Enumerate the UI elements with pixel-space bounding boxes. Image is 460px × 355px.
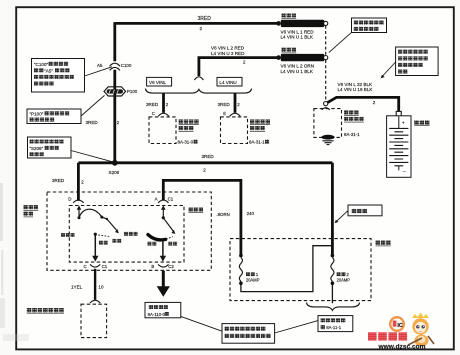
svg-text:L4 VIN U 3 RED: L4 VIN U 3 RED bbox=[211, 51, 245, 56]
cooling fan relay 1 (8A-31-0) bbox=[149, 117, 199, 145]
wire 1YEL circuit 10 to dimmer switch bbox=[71, 269, 104, 300]
svg-text:“S206”: “S206” bbox=[30, 146, 44, 151]
fuse box name label bbox=[376, 241, 391, 246]
svg-text:8A-11-1: 8A-11-1 bbox=[326, 325, 342, 330]
wire 3RED branch 2 to cooling fan relay bbox=[218, 93, 241, 116]
svg-text:−: − bbox=[403, 169, 406, 175]
splice hook under feed 2 bbox=[194, 77, 203, 80]
svg-text:3RED: 3RED bbox=[52, 178, 65, 183]
svg-text:E: E bbox=[223, 111, 226, 116]
svg-text:10: 10 bbox=[98, 284, 104, 289]
battery positive terminal bbox=[396, 111, 401, 116]
battery bbox=[387, 116, 430, 178]
pointer exterior lights box to note bbox=[181, 316, 222, 331]
brace under fuse box bbox=[307, 303, 360, 311]
watermark: red brand blocks bbox=[368, 332, 407, 340]
pointer C100 note to symbol bbox=[85, 67, 113, 76]
fuse box dashed outline bbox=[230, 239, 371, 301]
label box L4 VINU bbox=[217, 77, 242, 86]
pointer note to fuse detail box bbox=[275, 321, 318, 333]
connector at dimmer switch bbox=[90, 300, 100, 303]
svg-text:C: C bbox=[152, 111, 155, 116]
park/off switch wiper right (to connector A) bbox=[161, 205, 175, 234]
note box: page reference explanation bbox=[222, 324, 275, 344]
bold travel arc right switch bbox=[148, 235, 173, 262]
connector at cooling fan relay 2 bbox=[230, 113, 241, 116]
pointer bolt note to terminal bbox=[329, 32, 352, 52]
splice S206 bbox=[109, 160, 120, 175]
starter solenoid (8A-31-1) bbox=[314, 109, 364, 138]
right switch position labels bbox=[124, 232, 177, 246]
svg-text:P100: P100 bbox=[127, 89, 138, 94]
svg-text:L4 VIN U 1 BLK: L4 VIN U 1 BLK bbox=[281, 69, 314, 74]
wire V6 VIN L 2 RED / L4 VIN U 3 RED feed to fusible link 2 bbox=[199, 46, 279, 76]
grommet P100 bbox=[104, 87, 138, 96]
svg-text:V6 VIN L 2 RED: V6 VIN L 2 RED bbox=[211, 46, 245, 51]
arrow to exterior lights page bbox=[157, 271, 170, 297]
svg-text:20AMP: 20AMP bbox=[246, 278, 260, 283]
pointer arrow engine note to wire label bbox=[381, 62, 396, 78]
svg-text:3RED: 3RED bbox=[146, 102, 159, 107]
svg-text:www.dzsc.com: www.dzsc.com bbox=[378, 343, 426, 350]
starter solenoid connector bbox=[322, 108, 330, 110]
connector D at light switch bbox=[68, 196, 83, 202]
watermark: orange ring logo bbox=[390, 317, 404, 331]
svg-text:A5: A5 bbox=[97, 63, 103, 68]
svg-text:1YEL: 1YEL bbox=[71, 284, 83, 289]
svg-text:V6 VINL: V6 VINL bbox=[149, 80, 167, 85]
svg-text:3RED: 3RED bbox=[86, 120, 99, 125]
cooling fan relay 2 (8A-31-1) bbox=[221, 117, 271, 145]
brace splitting feed to two cooling fan branches bbox=[146, 89, 252, 94]
svg-text:3RED: 3RED bbox=[202, 154, 215, 159]
connector B C2 bottom right bbox=[151, 264, 174, 269]
svg-text:C1: C1 bbox=[168, 196, 174, 201]
svg-text:3RED: 3RED bbox=[198, 16, 212, 22]
pointer constant power to wire bbox=[335, 211, 348, 224]
wire label V6 VIN L 32 BLK bbox=[338, 82, 374, 92]
headlamp dimmer switch dashed box bbox=[81, 304, 107, 337]
label box V6 VINL bbox=[147, 77, 172, 86]
svg-text:A: A bbox=[155, 196, 158, 201]
note box: different wires for engine types bbox=[396, 47, 439, 76]
pointer P100 note to symbol bbox=[81, 95, 105, 116]
svg-text:L4 VIN U 19 BLK: L4 VIN U 19 BLK bbox=[338, 87, 374, 92]
node: power distribution reference label bbox=[24, 205, 39, 217]
fuse 1 20AMP bbox=[239, 246, 332, 292]
svg-text:.8ORN: .8ORN bbox=[216, 212, 229, 217]
svg-text:2: 2 bbox=[373, 100, 376, 105]
svg-text:3RED: 3RED bbox=[218, 102, 231, 107]
ground at starter bbox=[322, 141, 333, 145]
note box: fusible links attached to same bolt bbox=[352, 18, 387, 33]
svg-text:2: 2 bbox=[200, 26, 203, 31]
svg-text:C100: C100 bbox=[121, 63, 132, 68]
svg-text:“A5”: “A5” bbox=[44, 68, 53, 73]
svg-text:B: B bbox=[151, 264, 154, 269]
dashed line: fusible links on same bolt bbox=[325, 26, 327, 101]
note box: see exterior lights 8A-110-0 bbox=[145, 302, 181, 317]
fusible link 1 (V6 VIN L 1 RED / L4 VIN U 1 BLK) bbox=[276, 13, 328, 39]
svg-text:240: 240 bbox=[247, 211, 255, 216]
wire 3RED branch 1 to cooling fan relay bbox=[146, 93, 169, 116]
svg-text:L4 VINU: L4 VINU bbox=[219, 80, 236, 85]
wire: feed down to fuse box (constant power) bbox=[331, 163, 334, 256]
svg-text:IC: IC bbox=[397, 323, 403, 329]
svg-text:+: + bbox=[402, 121, 405, 127]
wire 3RED drop to light switch D bbox=[52, 163, 84, 201]
svg-text:S206: S206 bbox=[109, 170, 120, 175]
light switch inner dashed box bbox=[69, 206, 184, 263]
light switch outer dashed box bbox=[47, 192, 211, 270]
note box: S206 splice code explanation bbox=[28, 137, 72, 158]
svg-text:V6 VIN L 32 BLK: V6 VIN L 32 BLK bbox=[338, 82, 373, 87]
svg-text:“P100”: “P100” bbox=[30, 111, 44, 116]
connector at cooling fan relay 1 bbox=[158, 113, 169, 116]
left switch position labels bbox=[61, 233, 121, 244]
connector C100 pin A5 bbox=[97, 63, 132, 70]
pointer S206 note to splice bbox=[71, 151, 113, 162]
headlamp switch wiper left (to connector D) bbox=[77, 205, 119, 233]
headlamp dimmer switch name bbox=[27, 308, 64, 314]
fusible link 2 (V6 VIN L 2 ORN / L4 VIN U 1 BLK) bbox=[276, 48, 328, 74]
svg-text:8A-31-1: 8A-31-1 bbox=[344, 132, 360, 137]
wire: main vertical battery feed bbox=[113, 22, 116, 164]
light switch name label bbox=[189, 208, 204, 213]
svg-text:C1: C1 bbox=[102, 264, 108, 269]
svg-text:D: D bbox=[68, 196, 71, 201]
svg-text:20AMP: 20AMP bbox=[337, 278, 351, 283]
wire .8 ORN circuit 240: switch to fuse 1 bbox=[163, 180, 254, 255]
note box: P100 grommet code explanation bbox=[27, 109, 81, 124]
svg-text:C2: C2 bbox=[168, 264, 174, 269]
constant power note box bbox=[348, 205, 382, 216]
wire: S206 horizontal distribution run bbox=[78, 154, 332, 173]
svg-text:“C100”: “C100” bbox=[34, 62, 49, 67]
svg-text:8A-31-0: 8A-31-0 bbox=[178, 140, 194, 145]
svg-text:8A-110-0: 8A-110-0 bbox=[148, 312, 166, 317]
scan smudges left edge bbox=[0, 183, 29, 341]
wire label 3RED 2 below grommet bbox=[86, 120, 120, 125]
wire: battery positive cable circuit 2 bbox=[328, 97, 399, 111]
fuse 2 20AMP bbox=[331, 254, 351, 303]
svg-text:8A-31-1: 8A-31-1 bbox=[249, 140, 265, 145]
terminal ring at starter bbox=[324, 102, 328, 106]
starter solenoid coil blob bbox=[321, 135, 334, 140]
note box: C100 connector code explanation bbox=[32, 59, 85, 93]
connector A C1 at light switch bbox=[155, 196, 174, 202]
wire 3RED circuit 2: battery feed top run bbox=[115, 16, 279, 31]
svg-text:L4 VIN U 1 BLK: L4 VIN U 1 BLK bbox=[281, 35, 314, 40]
headlamp contact and drop to C bbox=[92, 233, 109, 262]
connector C C1 bottom left bbox=[84, 264, 108, 269]
watermark: mascot bbox=[408, 313, 434, 347]
svg-text:C: C bbox=[84, 264, 87, 269]
note box: see fuse box detail 8A-11-1 bbox=[318, 316, 353, 332]
